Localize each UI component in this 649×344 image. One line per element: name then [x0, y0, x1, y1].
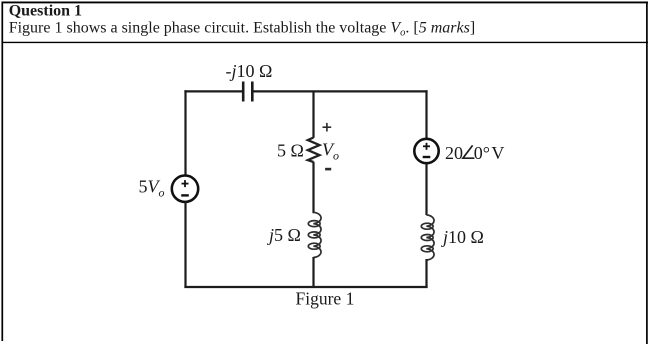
svg-text:0°: 0° — [474, 143, 490, 163]
label 20∠0° V — [445, 143, 504, 163]
wire: left vertical lower segment — [184, 202, 186, 288]
svg-text:-j10 Ω: -j10 Ω — [226, 61, 273, 81]
source 20∠0° V : plus sign — [423, 143, 430, 150]
wire: top horizontal left of capacitor — [184, 90, 243, 92]
svg-text:Figure 1: Figure 1 — [296, 288, 355, 308]
label + polarity of Vo — [323, 123, 332, 132]
capacitor -j10 Ω : left plate — [242, 82, 245, 102]
right border of question cell — [646, 2, 648, 344]
top border of question cell — [2, 1, 649, 3]
wire: bottom horizontal — [184, 286, 427, 288]
source 20∠0° V : minus sign — [423, 156, 431, 158]
dependent source 5Vo : circle — [172, 176, 198, 202]
svg-text:Figure 1 shows a single phase: Figure 1 shows a single phase circuit. E… — [9, 20, 476, 39]
left border of question cell — [1, 2, 3, 342]
wire: top horizontal right of capacitor — [252, 90, 427, 92]
inductor j10 Ω coil — [421, 215, 434, 260]
wire: middle branch between resistor and inductor — [312, 162, 314, 213]
wire: left vertical upper segment — [184, 90, 186, 175]
capacitor -j10 Ω : right plate — [251, 82, 254, 102]
svg-text:Question 1: Question 1 — [9, 2, 82, 19]
source 20∠0° V : circle — [414, 139, 438, 163]
svg-text:j5 Ω: j5 Ω — [267, 225, 301, 245]
wire: right vertical middle segment — [425, 164, 427, 216]
resistor 5 Ω — [308, 138, 320, 163]
divider line under question text — [2, 41, 649, 43]
label - polarity of Vo — [325, 168, 331, 171]
dependent source 5Vo : plus sign — [182, 180, 189, 187]
wire: right vertical bottom segment — [425, 259, 427, 288]
wire: right vertical top segment — [425, 90, 427, 138]
wire: middle branch top segment — [312, 91, 314, 137]
svg-text:20: 20 — [445, 143, 463, 163]
svg-text:j10 Ω: j10 Ω — [441, 227, 484, 247]
wire: middle branch bottom segment — [312, 257, 314, 288]
svg-text:5 Ω: 5 Ω — [277, 141, 304, 161]
dependent source 5Vo : minus sign — [181, 194, 189, 196]
svg-text:V: V — [491, 143, 504, 163]
inductor j5 Ω coil — [308, 212, 321, 257]
